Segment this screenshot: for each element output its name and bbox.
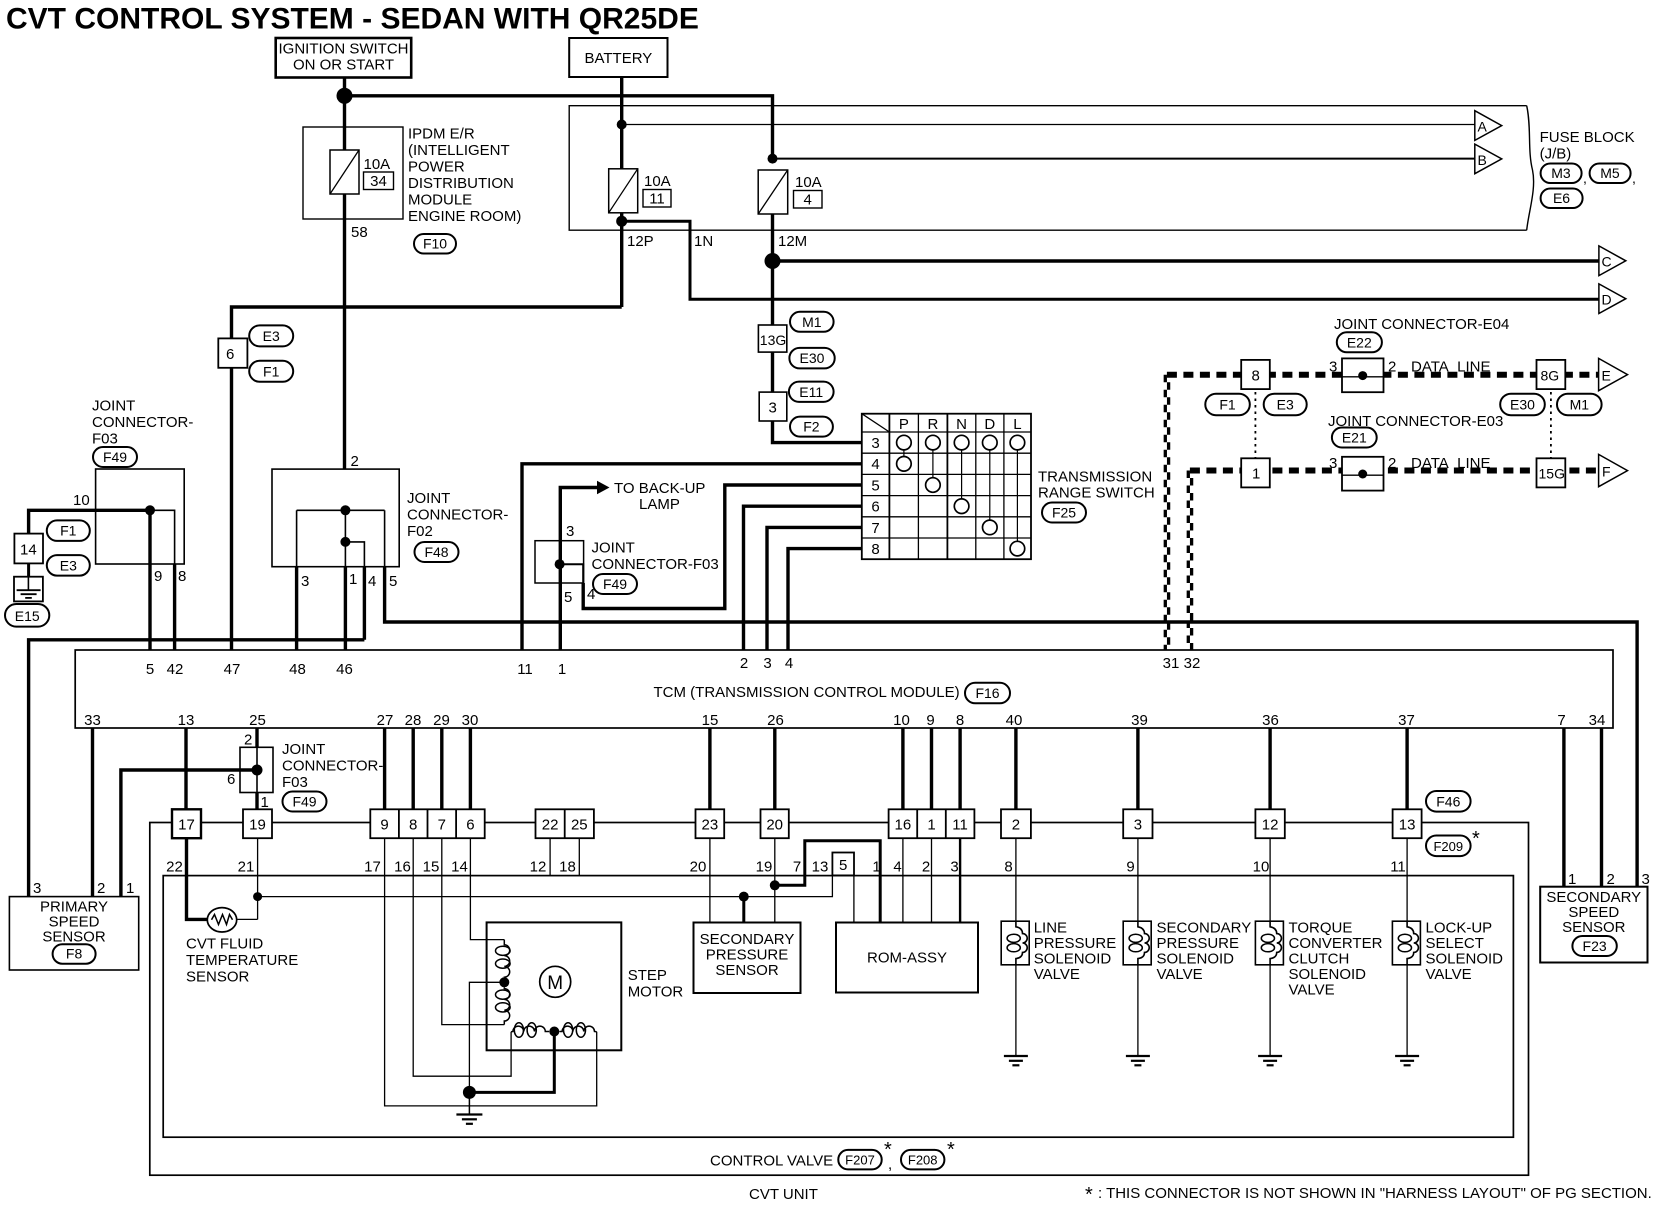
svg-text:E6: E6 — [1553, 190, 1570, 206]
svg-text:13: 13 — [1399, 817, 1416, 834]
svg-text:TORQUE: TORQUE — [1289, 920, 1353, 937]
svg-text:28: 28 — [405, 712, 422, 729]
step motor vertical coil — [496, 940, 511, 1025]
svg-text:8: 8 — [178, 568, 186, 585]
wire: speed sensor pin 1 bus to F03 junction — [121, 770, 257, 897]
node: F02 bus junction — [340, 505, 350, 515]
connector F16 oval — [965, 683, 1010, 704]
fuse 4 10A — [758, 170, 822, 214]
connector F10 oval — [414, 234, 456, 254]
svg-text:10: 10 — [893, 712, 910, 729]
connector M1 oval (data) — [1557, 394, 1602, 416]
contact circle D row 7 — [983, 520, 998, 535]
svg-text:1: 1 — [126, 880, 134, 897]
wire: box 19 down through junction — [257, 838, 259, 919]
svg-text:SENSOR: SENSOR — [1562, 919, 1626, 936]
svg-text:E11: E11 — [799, 384, 823, 400]
svg-text:1: 1 — [1252, 466, 1260, 483]
connector box 13 — [1393, 809, 1422, 838]
connector box 3 — [1123, 809, 1152, 838]
svg-text:R: R — [927, 416, 938, 433]
connector M3 oval — [1541, 164, 1587, 187]
svg-text:CONNECTOR-F03: CONNECTOR-F03 — [592, 556, 719, 573]
svg-text:SOLENOID: SOLENOID — [1426, 951, 1504, 968]
wire: TCM 36 to box 12 — [1268, 728, 1271, 809]
secondary speed sensor box — [1540, 887, 1647, 963]
svg-text:E3: E3 — [1277, 397, 1294, 413]
wire: F49 pin 8 down to TCM pin 42 — [173, 564, 176, 650]
connector E3 oval (data) — [1264, 394, 1307, 416]
svg-text:48: 48 — [289, 661, 306, 678]
wire: row 8 to TCM pin 4 — [788, 549, 862, 650]
connector box 12 — [1255, 809, 1284, 838]
wire: F02 pin 4 down to speed-sensor ground bus — [363, 567, 366, 640]
svg-text:2: 2 — [1388, 455, 1396, 472]
svg-text:ENGINE ROOM): ENGINE ROOM) — [408, 208, 521, 225]
connector F209 oval with asterisk — [1426, 828, 1480, 856]
wire: 12P across and down to joint connector 6 — [232, 307, 622, 338]
connector F2 oval — [790, 417, 833, 437]
wire: TCM 8 to box 11 — [958, 728, 961, 809]
wire: TCM 28 to box 8 — [412, 728, 415, 809]
STEP MOTOR label — [628, 967, 684, 1001]
svg-text:F48: F48 — [424, 544, 448, 560]
secondary pressure solenoid valve — [1123, 838, 1151, 1055]
svg-text:TEMPERATURE: TEMPERATURE — [186, 952, 298, 969]
data line F dashed wire — [1190, 468, 1599, 474]
svg-text:SOLENOID: SOLENOID — [1289, 966, 1367, 983]
node: sensor signal junction — [253, 892, 262, 901]
wire: box 17 to CVT fluid temp sensor — [187, 838, 208, 919]
svg-text:23: 23 — [702, 817, 719, 834]
wire: 13G to 3 box — [771, 352, 774, 392]
wire: TCM 25 to joint connector F03 — [255, 728, 258, 747]
svg-text:(J/B): (J/B) — [1540, 146, 1572, 163]
wire: 3 box to range switch row 3 — [773, 421, 862, 443]
wire: box 1 pin 2 to ROM-assy — [931, 838, 933, 922]
svg-text:MODULE: MODULE — [408, 192, 472, 209]
connector F48 oval — [415, 542, 459, 562]
connector pin box 1 (data line F) — [1241, 458, 1270, 487]
svg-text:6: 6 — [466, 817, 474, 834]
ROM-ASSY box — [836, 923, 978, 993]
node: F49 internal junction — [145, 505, 155, 515]
connector E21 oval — [1332, 428, 1377, 448]
step motor M symbol — [540, 966, 571, 997]
connector E11 oval — [789, 382, 834, 402]
dashed vertical to TCM pin 32 — [1188, 471, 1191, 651]
wire: fuse 34 to pin 58 down to joint connector F02 pin 2 — [343, 194, 346, 469]
battery box — [569, 38, 667, 77]
FUSE BLOCK (J/B) label — [1540, 129, 1635, 163]
svg-text:5: 5 — [389, 573, 397, 590]
svg-text:25: 25 — [571, 817, 588, 834]
svg-text:CONTROL VALVE: CONTROL VALVE — [710, 1153, 833, 1170]
wire: TCM 37 to box 13 — [1405, 728, 1408, 809]
svg-text:2: 2 — [740, 655, 748, 672]
svg-text:4: 4 — [893, 859, 901, 876]
wire: F49 internal to pin 8 — [150, 510, 175, 564]
svg-text:39: 39 — [1131, 712, 1148, 729]
wire: box 9 pin 17 to step motor coil D — [385, 838, 597, 1106]
svg-text:4: 4 — [804, 192, 812, 209]
wire: F49 pin 9 down to TCM pin 5 — [148, 510, 151, 650]
wire: F02 pin 1 to TCM 46 — [344, 567, 347, 650]
svg-text:F1: F1 — [60, 523, 77, 539]
wire: TCM 27 to box 9 — [383, 728, 386, 809]
svg-text:TRANSMISSION: TRANSMISSION — [1038, 469, 1152, 486]
svg-text:7: 7 — [871, 520, 879, 537]
joint connector F03 box (left) — [96, 469, 185, 564]
connector 8G box — [1537, 360, 1566, 389]
wire A: battery feed to fuse block connector A — [622, 124, 1475, 126]
svg-text:CVT FLUID: CVT FLUID — [186, 936, 263, 953]
svg-text:POWER: POWER — [408, 159, 465, 176]
svg-text:9: 9 — [380, 817, 388, 834]
svg-text:CONNECTOR-: CONNECTOR- — [407, 507, 508, 524]
connector F23 oval — [1572, 936, 1616, 956]
svg-text:F: F — [1602, 464, 1611, 480]
wire: TCM 30 to box 6 — [469, 728, 472, 809]
wire: row 6 to TCM pin 2 — [744, 506, 862, 650]
svg-text:VALVE: VALVE — [1157, 966, 1203, 983]
connector C triangle — [1599, 246, 1626, 276]
svg-text:58: 58 — [351, 224, 368, 241]
CVT unit box — [150, 823, 1529, 1176]
wire: power bus ignition junction to fuse block drop — [345, 96, 773, 159]
connector F49 oval (middle) — [593, 574, 637, 594]
svg-text:8G: 8G — [1541, 368, 1560, 384]
svg-text:26: 26 — [767, 712, 784, 729]
svg-text:3: 3 — [763, 655, 771, 672]
node: 1N branch — [616, 216, 627, 227]
svg-text:16: 16 — [394, 859, 411, 876]
wire: battery down into fuse block — [620, 77, 623, 169]
svg-text:STEP: STEP — [628, 967, 667, 984]
node: F03 middle junction — [555, 559, 565, 569]
ground: torque converter clutch solenoid — [1258, 1056, 1282, 1065]
connector E15 oval — [5, 604, 49, 627]
wire: pin 5 box to ROM-assy — [853, 875, 855, 922]
svg-text:DISTRIBUTION: DISTRIBUTION — [408, 175, 514, 192]
wire: TCM pin 1 up through joint connector F03 to back-up lamp — [560, 488, 598, 651]
connector M1 oval — [790, 312, 834, 332]
svg-text:LAMP: LAMP — [639, 496, 680, 513]
svg-text:10: 10 — [73, 492, 90, 509]
connector 13G box — [758, 325, 786, 352]
wire: temp sensor to box 19 wire — [237, 918, 258, 920]
node: F03 junction (lower) — [252, 765, 263, 776]
step motor box — [487, 922, 622, 1050]
node: ignition power junction — [337, 88, 353, 104]
svg-text:B: B — [1478, 152, 1487, 168]
svg-text:E15: E15 — [15, 608, 40, 624]
svg-text:VALVE: VALVE — [1289, 982, 1335, 999]
primary speed sensor box — [9, 897, 138, 970]
svg-text:5: 5 — [564, 589, 572, 606]
svg-text:PRESSURE: PRESSURE — [1157, 935, 1240, 952]
svg-text:22: 22 — [542, 817, 559, 834]
svg-text:34: 34 — [370, 173, 387, 190]
svg-text:11: 11 — [649, 191, 665, 208]
svg-text:8: 8 — [409, 817, 417, 834]
control valve box — [163, 876, 1513, 1138]
svg-text:37: 37 — [1398, 712, 1415, 729]
node: sensor supply junction — [770, 880, 780, 890]
wire: box 23 pin 20 to secondary pressure sensor — [709, 838, 711, 922]
TCM (transmission control module) box — [75, 650, 1613, 728]
wire: F02 pin 5 down and right to secondary speed sensor pin 3 — [385, 567, 1638, 887]
connector F1 oval (left chain) — [47, 520, 90, 541]
svg-text:6: 6 — [227, 771, 235, 788]
svg-text:P: P — [899, 416, 909, 433]
svg-text:E22: E22 — [1347, 334, 1372, 350]
connector F triangle — [1599, 454, 1628, 486]
svg-text:18: 18 — [559, 859, 576, 876]
svg-text:: THIS CONNECTOR IS NOT SHOWN: : THIS CONNECTOR IS NOT SHOWN IN "HARNES… — [1098, 1185, 1652, 1202]
svg-text:,: , — [1583, 170, 1587, 186]
svg-text:ROM-ASSY: ROM-ASSY — [867, 950, 947, 967]
svg-text:CVT UNIT: CVT UNIT — [749, 1186, 818, 1203]
svg-text:E30: E30 — [1510, 397, 1535, 413]
svg-text:10A: 10A — [644, 173, 671, 190]
node: battery branch to A — [617, 120, 627, 130]
svg-text:10A: 10A — [364, 156, 391, 173]
connector box 17 — [172, 809, 201, 838]
wire: TCM 10 to box 16 — [901, 728, 904, 809]
wire: inner rail to pin 5 box — [258, 875, 833, 896]
svg-text:JOINT: JOINT — [592, 540, 635, 557]
connector box 2 — [1001, 809, 1031, 838]
svg-text:SOLENOID: SOLENOID — [1034, 951, 1112, 968]
svg-text:12: 12 — [1262, 817, 1279, 834]
svg-text:*: * — [1472, 828, 1480, 850]
ground: secondary pressure solenoid — [1126, 1056, 1150, 1065]
fuse block (J/B) outline with wavy right edge — [569, 106, 1533, 231]
wire: ground bus to primary speed sensor pin 3 — [29, 640, 365, 897]
wire: TCM 26 to box 20 — [773, 728, 776, 809]
connector F1 oval (data) — [1205, 394, 1250, 416]
svg-text:M3: M3 — [1551, 165, 1571, 181]
svg-text:M1: M1 — [802, 314, 822, 330]
svg-text:13G: 13G — [760, 332, 786, 348]
connector B triangle — [1475, 144, 1502, 174]
fuse 11 10A — [609, 169, 671, 213]
svg-text:5: 5 — [871, 477, 879, 494]
svg-text:7: 7 — [438, 817, 446, 834]
node: coil A-B centre tap — [499, 977, 509, 987]
LINE PRESSURE SOLENOID VALVE label — [1034, 920, 1117, 984]
connector E22 oval — [1337, 332, 1382, 352]
svg-text:13: 13 — [812, 859, 829, 876]
svg-text:3: 3 — [33, 880, 41, 897]
contact circle N row 6 — [954, 499, 969, 514]
svg-text:JOINT CONNECTOR-E04: JOINT CONNECTOR-E04 — [1334, 316, 1509, 333]
node: inner rail junction to sensor — [739, 892, 749, 902]
dotted link 8G to 15G — [1550, 392, 1552, 458]
TRANSMISSION RANGE SWITCH label — [1038, 469, 1155, 502]
svg-text:F25: F25 — [1052, 505, 1076, 521]
wire: pin 6 down to TCM pin 47 — [230, 368, 233, 650]
wire: centre tap to motor ground — [469, 982, 504, 1092]
svg-text:9: 9 — [926, 712, 934, 729]
svg-text:BATTERY: BATTERY — [585, 50, 653, 67]
wire: junction to ROM-assy pin 1 — [775, 841, 880, 923]
connector E6 oval — [1541, 189, 1583, 209]
svg-text:4: 4 — [785, 655, 793, 672]
svg-text:LOCK-UP: LOCK-UP — [1426, 920, 1493, 937]
svg-text:F02: F02 — [407, 523, 433, 540]
svg-text:JOINT: JOINT — [92, 398, 135, 415]
svg-text:PRESSURE: PRESSURE — [706, 947, 789, 964]
svg-text:13: 13 — [178, 712, 195, 729]
svg-text:8: 8 — [1004, 859, 1012, 876]
connector E30 oval — [789, 348, 834, 369]
joint connector F03 middle label — [592, 540, 719, 574]
svg-text:3: 3 — [1329, 359, 1337, 376]
svg-text:LINE: LINE — [1034, 920, 1067, 937]
svg-text:SOLENOID: SOLENOID — [1157, 951, 1235, 968]
svg-text:E21: E21 — [1342, 430, 1367, 446]
svg-text:42: 42 — [167, 661, 184, 678]
node: 12M junction for C — [765, 253, 781, 269]
svg-text:CLUTCH: CLUTCH — [1289, 951, 1350, 968]
wire: TCM 34 to secondary speed sensor pin 2 — [1600, 728, 1603, 887]
step motor horizontal coil — [511, 1023, 597, 1038]
svg-text:8: 8 — [871, 541, 879, 558]
range switch row labels 3-8 — [871, 435, 879, 558]
wire: row 7 to TCM pin 3 — [767, 527, 862, 650]
contact circle L row 8 — [1010, 541, 1025, 556]
joint connector F03 lower label — [282, 741, 383, 791]
svg-text:3: 3 — [566, 523, 574, 540]
svg-text:SENSOR: SENSOR — [186, 969, 250, 986]
wire: TCM 33 to primary speed sensor pin 2 — [91, 728, 94, 897]
svg-text:CONNECTOR-: CONNECTOR- — [92, 414, 193, 431]
svg-text:MOTOR: MOTOR — [628, 984, 684, 1001]
wire: F03 pin 4 to range switch row 5 (R) — [583, 485, 862, 609]
wire: box 6 pin 14 to step motor coil A top — [470, 838, 504, 939]
joint connector E21 box with dot — [1342, 457, 1384, 491]
svg-text:21: 21 — [238, 859, 255, 876]
wire: pin 14 connector up and into F49 pin 10 — [29, 510, 150, 533]
contact circle P row 4 — [897, 457, 912, 472]
svg-text:M: M — [547, 973, 563, 994]
svg-text:40: 40 — [1006, 712, 1023, 729]
footnote — [1085, 1184, 1652, 1206]
svg-text:12P: 12P — [627, 233, 654, 250]
wire: ignition switch down to junction and fuse 34 — [343, 78, 346, 151]
connector F49 oval (lower) — [283, 792, 327, 812]
svg-text:9: 9 — [1126, 859, 1134, 876]
svg-text:20: 20 — [766, 817, 783, 834]
connector boxes 16 1 11 — [889, 809, 975, 838]
svg-text:8: 8 — [1252, 368, 1260, 385]
svg-text:14: 14 — [20, 542, 37, 559]
wire: fuse 11 down 12P — [620, 213, 623, 307]
fuse 34 10A — [330, 150, 394, 194]
svg-text:F46: F46 — [1436, 793, 1460, 809]
connector E3 oval (left chain) — [47, 555, 90, 576]
wire: TCM 29 to box 7 — [440, 728, 443, 809]
svg-text:36: 36 — [1262, 712, 1279, 729]
TCM bottom pin labels — [84, 712, 1605, 729]
wire: box 8 pin 16 to step motor coil C — [413, 838, 511, 1076]
svg-text:CONVERTER: CONVERTER — [1289, 935, 1383, 952]
svg-text:A: A — [1478, 119, 1488, 135]
svg-text:F209: F209 — [1433, 839, 1463, 854]
connector E30 oval (data) — [1500, 394, 1545, 416]
ground symbol box E15 — [14, 577, 43, 602]
TO BACK-UP LAMP label — [614, 480, 705, 513]
contact circle R row 5 — [926, 478, 941, 493]
svg-text:3: 3 — [1134, 817, 1142, 834]
svg-text:1: 1 — [1568, 871, 1576, 888]
CVT fluid temperature sensor (thermistor) — [207, 908, 236, 932]
wire: TCM 13 to box 17 — [184, 728, 187, 809]
wire: F02 pin 3 to TCM 48 — [295, 567, 298, 650]
svg-text:6: 6 — [226, 346, 234, 363]
joint connector F03 box (middle) — [535, 541, 584, 583]
svg-text:M1: M1 — [1570, 397, 1590, 413]
connector F1 oval — [249, 361, 293, 382]
svg-text:F49: F49 — [292, 794, 316, 810]
connector pin box 14 — [14, 534, 43, 564]
connector boxes 9 8 7 6 — [370, 809, 484, 838]
svg-text:SENSOR: SENSOR — [715, 962, 779, 979]
svg-text:TCM (TRANSMISSION CONTROL MODU: TCM (TRANSMISSION CONTROL MODULE) — [654, 684, 960, 701]
svg-text:30: 30 — [462, 712, 479, 729]
svg-text:F10: F10 — [423, 236, 447, 252]
svg-text:15: 15 — [702, 712, 719, 729]
joint connector F03 (F49) label top-left — [92, 398, 193, 448]
svg-text:F1: F1 — [1219, 397, 1236, 413]
svg-text:19: 19 — [249, 817, 266, 834]
F02 internal wires — [344, 510, 346, 566]
svg-text:27: 27 — [377, 712, 394, 729]
svg-text:4: 4 — [871, 456, 879, 473]
F02 internal bus — [297, 509, 385, 511]
svg-text:E3: E3 — [60, 557, 77, 573]
arrow to back-up lamp — [597, 481, 610, 494]
svg-text:F03: F03 — [282, 774, 308, 791]
node: 12M top junction for B — [768, 154, 778, 164]
connector D triangle — [1599, 284, 1626, 314]
svg-text:SENSOR: SENSOR — [42, 929, 106, 946]
svg-text:E3: E3 — [263, 328, 280, 344]
connector F8 oval — [53, 944, 96, 964]
connector E triangle — [1599, 358, 1628, 390]
TCM top pin labels — [146, 655, 1201, 678]
svg-text:1: 1 — [558, 661, 566, 678]
svg-text:F1: F1 — [263, 363, 280, 379]
svg-text:F208: F208 — [908, 1152, 938, 1167]
svg-text:2: 2 — [244, 732, 252, 749]
ground: step motor — [456, 1092, 482, 1123]
svg-text:DATA LINE: DATA LINE — [1411, 359, 1490, 376]
pin labels under connector boxes — [166, 859, 1406, 876]
svg-text:11: 11 — [1390, 859, 1406, 876]
ground: lock-up select solenoid — [1395, 1056, 1419, 1065]
data line E dashed wire — [1167, 372, 1599, 378]
svg-text:15G: 15G — [1539, 466, 1565, 482]
svg-text:SECONDARY: SECONDARY — [1157, 920, 1252, 937]
wire: inner rail to secondary pressure sensor — [742, 897, 745, 923]
contact connecting lines — [904, 450, 1018, 541]
svg-text:12M: 12M — [778, 233, 807, 250]
svg-text:C: C — [1602, 254, 1612, 270]
svg-text:10A: 10A — [795, 174, 822, 191]
